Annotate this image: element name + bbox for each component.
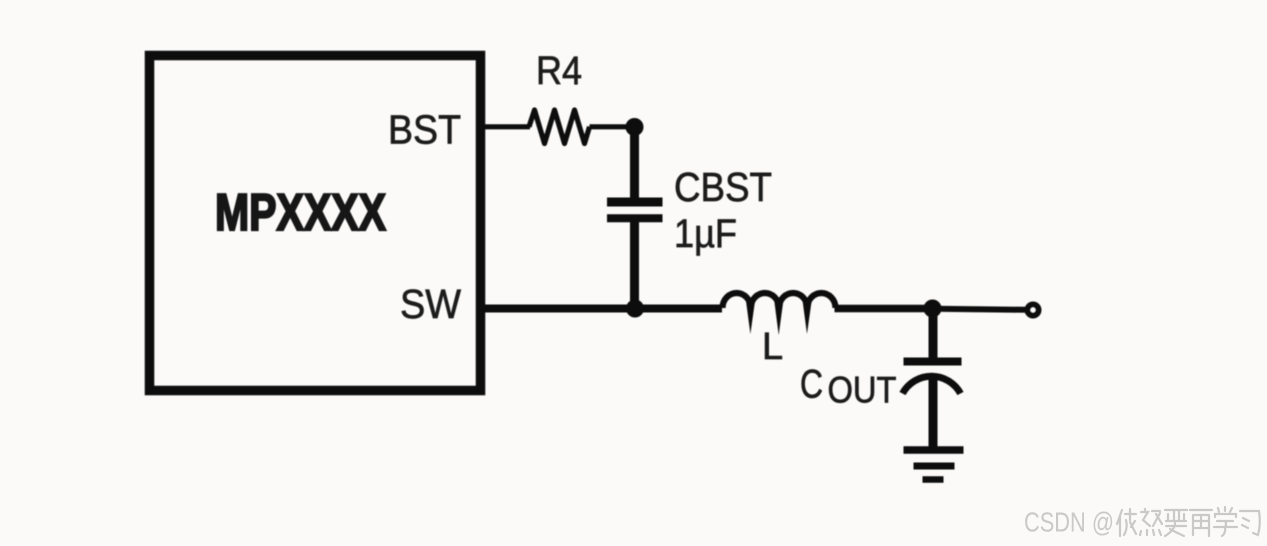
wire R4 to node A <box>590 124 635 129</box>
glyph 然 <box>1140 509 1162 535</box>
svg-text:OUT: OUT <box>828 370 897 411</box>
resistor R4 <box>529 110 590 144</box>
wire COUT to ground <box>929 375 938 450</box>
watermark CSDN @依然要再学习 <box>1024 507 1260 538</box>
label COUT <box>800 363 897 411</box>
glyph 学 <box>1214 507 1237 536</box>
wire inductor to VOUT terminal <box>835 305 935 313</box>
terminal VOUT open circle <box>1028 305 1039 316</box>
wire node C down to COUT <box>929 309 938 362</box>
svg-text:SW: SW <box>400 281 461 327</box>
node B junction dot (SW/CBST) <box>626 300 644 318</box>
op-amp U1 MPXXXX IC box <box>150 56 481 391</box>
glyph 再 <box>1190 510 1212 536</box>
node A junction dot (BST/CBST) <box>626 118 644 136</box>
svg-text:CBST: CBST <box>674 164 772 210</box>
wire node A down to CBST <box>630 127 639 202</box>
ground <box>904 450 964 480</box>
wire SW pin to inductor <box>484 305 722 313</box>
svg-text:BST: BST <box>388 107 461 153</box>
glyph 依 <box>1117 509 1136 536</box>
glyph 要 <box>1165 510 1187 536</box>
svg-text:L: L <box>762 326 783 368</box>
wire CBST down to SW line <box>630 218 639 308</box>
svg-text:C: C <box>800 363 823 407</box>
node C junction dot (VOUT/COUT) <box>924 300 942 318</box>
svg-text:CSDN @: CSDN @ <box>1024 507 1114 538</box>
svg-text:1µF: 1µF <box>674 212 737 256</box>
glyph 习 <box>1240 511 1260 535</box>
wire BST pin to resistor R4 <box>484 124 530 129</box>
svg-text:R4: R4 <box>536 49 582 93</box>
svg-text:MPXXXX: MPXXXX <box>215 184 386 242</box>
capacitor CBST <box>607 202 663 218</box>
capacitor COUT (polarized) <box>903 362 962 394</box>
inductor L <box>723 293 836 335</box>
